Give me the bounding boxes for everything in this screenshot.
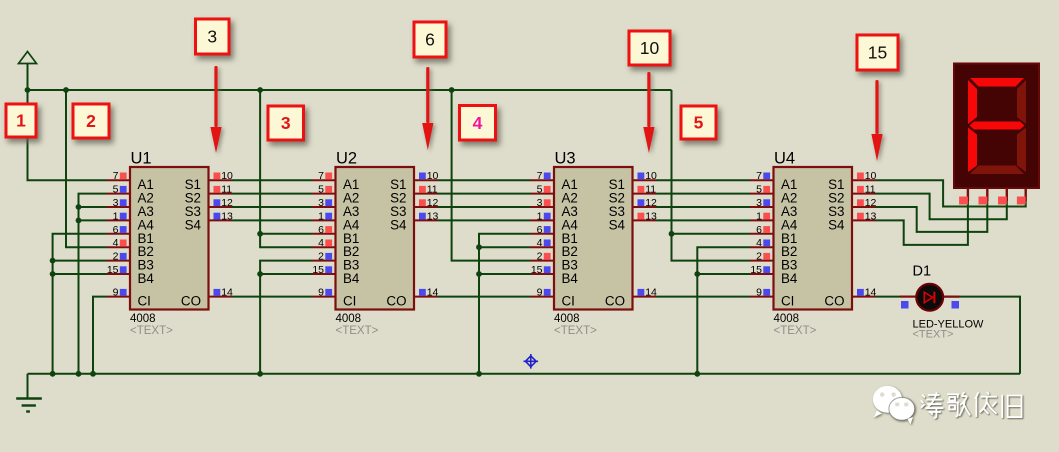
sum label 3 — [196, 19, 230, 54]
wire net 3: power to U2 B1,B2 — [260, 90, 312, 247]
U4 pin 14 (CO) — [824, 287, 876, 309]
svg-text:B4: B4 — [343, 271, 360, 286]
wire U3 B4 spur — [479, 273, 531, 275]
wire net 2: power to U1 B2 — [66, 90, 107, 247]
wire U2 S3 to U3 A3 — [438, 206, 531, 208]
LED D1 — [900, 264, 984, 341]
U4 pin 7 (A1) — [750, 170, 797, 192]
svg-text:7: 7 — [113, 170, 119, 182]
U1 pin 11 (S2) — [185, 184, 233, 206]
svg-text:2: 2 — [537, 251, 543, 263]
U2 pin 3 (A3) — [312, 197, 359, 219]
svg-text:B4: B4 — [562, 271, 579, 286]
wire U1 A2-A4 to ground — [79, 194, 107, 374]
wire U4 B1 spur — [672, 233, 751, 235]
U1 pin 4 (B2) — [107, 237, 154, 259]
svg-text:15: 15 — [531, 264, 543, 276]
junction 13 — [50, 258, 56, 264]
svg-text:10: 10 — [645, 170, 657, 182]
svg-text:3: 3 — [537, 197, 543, 209]
svg-text:4: 4 — [473, 113, 483, 133]
U2 pin 10 (S1) — [390, 170, 438, 192]
svg-text:9: 9 — [318, 287, 324, 299]
svg-text:11: 11 — [645, 184, 656, 196]
junction 17 — [476, 244, 482, 250]
U2 pin 2 (B3) — [312, 251, 359, 273]
junction 10 — [694, 371, 700, 377]
arrow to U3 sum — [643, 72, 654, 153]
U4 pin 2 (B3) — [750, 251, 797, 273]
wire U1 B4 spur — [53, 273, 107, 275]
segment F (lit) — [968, 80, 977, 124]
U2 pin 7 (A1) — [312, 170, 359, 192]
svg-text:1: 1 — [16, 111, 26, 131]
U4 pin 12 (S3) — [828, 197, 876, 219]
svg-text:CO: CO — [181, 294, 201, 309]
display pin 3 — [998, 188, 1007, 205]
U1 pin 7 (A1) — [107, 170, 154, 192]
svg-text:2: 2 — [113, 251, 119, 263]
display pin 1 — [959, 188, 968, 205]
junction 18 — [476, 271, 482, 277]
U2 pin 1 (A4) — [312, 210, 360, 232]
svg-text:1: 1 — [113, 210, 119, 222]
ground symbol bottom-left — [16, 374, 42, 412]
wire U4 CO to LED D1 anode — [876, 296, 901, 298]
svg-text:7: 7 — [756, 170, 762, 182]
U2 pin 5 (A2) — [312, 184, 359, 206]
7-segment display body — [954, 64, 1039, 189]
U3 pin 9 (CI) — [531, 287, 575, 309]
node label 2 — [73, 104, 109, 138]
svg-text:5: 5 — [756, 184, 762, 196]
IC U2 4008 body — [336, 150, 415, 338]
svg-text:1: 1 — [318, 210, 324, 222]
U3 pin 10 (S1) — [609, 170, 657, 192]
svg-text:13: 13 — [865, 210, 877, 222]
wire U1 B3 spur — [53, 260, 107, 262]
wire U1 CI to ground — [93, 297, 107, 374]
wire bottom ground bus — [28, 373, 1021, 375]
svg-text:<TEXT>: <TEXT> — [913, 329, 954, 341]
arrow to U2 sum — [422, 67, 433, 150]
U4 pin 9 (CI) — [750, 287, 794, 309]
wire U3 B2 spur — [479, 246, 531, 248]
U3 pin 12 (S3) — [609, 197, 657, 219]
wire U2 S4 to U3 A4 — [438, 219, 531, 221]
U3 pin 1 (A4) — [531, 210, 579, 232]
node label 3 (B of U2) — [268, 106, 304, 140]
junction 2 — [63, 87, 69, 93]
wire U2 B1 spur — [260, 233, 312, 235]
wire U1 S4 to U2 A4 — [232, 219, 312, 221]
svg-text:<TEXT>: <TEXT> — [336, 325, 379, 337]
svg-text:6: 6 — [756, 224, 762, 236]
svg-text:U4: U4 — [774, 150, 795, 168]
junction 8 — [257, 371, 263, 377]
wire U3 S4 to U4 A4 — [656, 219, 750, 221]
node label 1 — [6, 104, 36, 137]
wire top power bus — [27, 89, 672, 91]
svg-text:CO: CO — [386, 294, 406, 309]
wire U1 A4 spur — [79, 219, 107, 221]
svg-text:B4: B4 — [781, 271, 798, 286]
svg-text:5: 5 — [318, 184, 324, 196]
svg-text:5: 5 — [537, 184, 543, 196]
svg-text:4: 4 — [537, 237, 543, 249]
U4 pin 11 (S2) — [828, 184, 876, 206]
svg-text:D1: D1 — [913, 264, 932, 280]
IC U3 4008 body — [554, 150, 633, 338]
junction 12 — [76, 218, 82, 224]
wire U1 S3 to U2 A3 — [232, 206, 312, 208]
wire U1 A3 spur — [79, 206, 107, 208]
U3 pin 4 (B2) — [531, 237, 578, 259]
svg-text:11: 11 — [221, 184, 232, 196]
U3 pin 14 (CO) — [605, 287, 657, 309]
U1 pin 2 (B3) — [107, 251, 154, 273]
U1 pin 14 (CO) — [181, 287, 233, 309]
wire U1 S2 to U2 A2 — [232, 193, 312, 195]
U3 pin 7 (A1) — [531, 170, 578, 192]
svg-text:CI: CI — [562, 294, 575, 309]
svg-text:CO: CO — [605, 294, 625, 309]
svg-text:15: 15 — [868, 43, 887, 63]
svg-text:15: 15 — [750, 264, 762, 276]
svg-text:3: 3 — [756, 197, 762, 209]
svg-text:4: 4 — [756, 237, 762, 249]
LED probe square left — [901, 301, 909, 309]
wire U4 B4 spur — [697, 273, 750, 275]
U3 pin 11 (S2) — [609, 184, 657, 206]
node label 4 (B of U3) — [460, 106, 496, 141]
svg-text:4008: 4008 — [130, 313, 156, 325]
svg-text:10: 10 — [221, 170, 233, 182]
svg-text:10: 10 — [427, 170, 439, 182]
wire U3 B1,B2,B4 to ground — [479, 234, 531, 374]
watermark WeChat icon — [873, 386, 915, 425]
svg-text:S4: S4 — [828, 217, 845, 232]
svg-text:CI: CI — [781, 294, 794, 309]
U2 pin 15 (B4) — [312, 264, 360, 286]
junction 20 — [694, 271, 700, 277]
junction 3 — [257, 87, 263, 93]
svg-text:S4: S4 — [390, 217, 407, 232]
sum label 15 — [857, 35, 898, 70]
svg-text:11: 11 — [427, 184, 438, 196]
U4 pin 10 (S1) — [828, 170, 876, 192]
wire net 5: power to U4 B1,B3 — [672, 90, 751, 261]
junction 5 — [50, 371, 56, 377]
svg-text:9: 9 — [756, 287, 762, 299]
wire U2 B4 spur — [260, 273, 312, 275]
svg-text:CI: CI — [138, 294, 151, 309]
svg-text:9: 9 — [113, 287, 119, 299]
svg-text:1: 1 — [756, 210, 762, 222]
junction 19 — [669, 231, 675, 237]
node label 5 (B of U4) — [681, 106, 716, 139]
svg-text:9: 9 — [537, 287, 543, 299]
svg-text:15: 15 — [312, 264, 324, 276]
svg-text:1: 1 — [537, 210, 543, 222]
junction 6 — [76, 371, 82, 377]
U3 pin 3 (A3) — [531, 197, 578, 219]
svg-text:14: 14 — [865, 287, 877, 299]
svg-text:14: 14 — [427, 287, 439, 299]
svg-text:7: 7 — [537, 170, 543, 182]
svg-text:15: 15 — [107, 264, 119, 276]
segment G (lit) — [970, 122, 1025, 130]
wire U4 S1 to display pin — [876, 180, 1026, 206]
svg-text:<TEXT>: <TEXT> — [774, 325, 817, 337]
wire U4 B2,B4 to ground — [697, 247, 750, 374]
wire U4 S3 to display pin — [876, 201, 988, 232]
wire U2 S2 to U3 A2 — [438, 193, 531, 195]
junction 9 — [476, 371, 482, 377]
wire U2 B3,B4 to ground — [260, 261, 312, 374]
power symbol VCC top-left — [19, 52, 37, 91]
svg-text:10: 10 — [640, 38, 660, 58]
wire U4 S2 to display pin — [876, 194, 1007, 220]
U4 pin 5 (A2) — [750, 184, 797, 206]
U2 pin 11 (S2) — [390, 184, 438, 206]
segment E (lit) — [968, 128, 977, 173]
wire U4 S4 to display pin — [876, 201, 968, 245]
wire net 1: power to U1 A1 — [28, 90, 107, 180]
svg-text:4008: 4008 — [774, 313, 800, 325]
wire U3 CO to U4 CI — [656, 296, 750, 298]
svg-text:CI: CI — [343, 294, 356, 309]
svg-text:3: 3 — [281, 113, 291, 133]
U1 pin 10 (S1) — [185, 170, 233, 192]
svg-text:CO: CO — [824, 294, 844, 309]
svg-text:6: 6 — [537, 224, 543, 236]
U1 pin 5 (A2) — [107, 184, 154, 206]
wire U2 CO to U3 CI — [438, 296, 531, 298]
svg-text:5: 5 — [113, 184, 119, 196]
svg-text:13: 13 — [221, 210, 233, 222]
display pin 4 — [1017, 188, 1026, 205]
svg-text:10: 10 — [865, 170, 877, 182]
svg-text:4008: 4008 — [554, 313, 580, 325]
segment B (unlit) — [1017, 80, 1026, 124]
segment A (lit) — [970, 78, 1024, 87]
U2 pin 4 (B2) — [312, 237, 359, 259]
U2 pin 9 (CI) — [312, 287, 356, 309]
svg-text:6: 6 — [318, 224, 324, 236]
svg-text:14: 14 — [645, 287, 657, 299]
svg-text:12: 12 — [645, 197, 657, 209]
svg-text:14: 14 — [221, 287, 233, 299]
junction 4 — [449, 87, 455, 93]
segment D (unlit) — [970, 166, 1024, 175]
svg-text:2: 2 — [756, 251, 762, 263]
wire U2 S1 to U3 A1 — [438, 179, 531, 181]
origin marker — [524, 354, 539, 369]
U1 pin 12 (S3) — [185, 197, 233, 219]
wire U1 CO to U2 CI — [232, 296, 312, 298]
wire U1 S1 to U2 A1 — [232, 179, 312, 181]
junction 16 — [257, 271, 263, 277]
watermark text 涛歌依旧 — [921, 392, 1022, 418]
segment C (unlit) — [1017, 128, 1026, 173]
U2 pin 12 (S3) — [390, 197, 438, 219]
junction 1 — [25, 87, 31, 93]
U2 pin 14 (CO) — [386, 287, 438, 309]
junction 7 — [90, 371, 96, 377]
svg-text:<TEXT>: <TEXT> — [130, 325, 173, 337]
U1 pin 9 (CI) — [107, 287, 151, 309]
U4 pin 1 (A4) — [750, 210, 798, 232]
U3 pin 6 (B1) — [531, 224, 578, 246]
wire U1 B1,B3,B4 to ground — [53, 234, 107, 374]
svg-text:12: 12 — [221, 197, 233, 209]
arrow to U4 sum — [871, 80, 882, 161]
LED probe square right — [952, 301, 960, 309]
U1 pin 3 (A3) — [107, 197, 154, 219]
U1 pin 6 (B1) — [107, 224, 154, 246]
svg-text:13: 13 — [427, 210, 439, 222]
wire U3 S2 to U4 A2 — [656, 193, 750, 195]
U4 pin 15 (B4) — [750, 264, 798, 286]
U4 pin 13 (S4) — [828, 210, 876, 232]
svg-text:6: 6 — [113, 224, 119, 236]
display pin 2 — [979, 188, 988, 205]
svg-text:U1: U1 — [131, 150, 152, 168]
U2 pin 6 (B1) — [312, 224, 359, 246]
junction 14 — [50, 271, 56, 277]
U1 pin 15 (B4) — [107, 264, 155, 286]
svg-text:13: 13 — [645, 210, 657, 222]
svg-text:4: 4 — [113, 237, 119, 249]
arrow to U1 sum — [210, 66, 221, 153]
U3 pin 13 (S4) — [609, 210, 657, 232]
svg-text:3: 3 — [207, 27, 217, 47]
wire U3 S1 to U4 A1 — [656, 179, 750, 181]
U4 pin 6 (B1) — [750, 224, 797, 246]
svg-text:B4: B4 — [138, 271, 155, 286]
svg-text:4008: 4008 — [336, 313, 362, 325]
U1 pin 1 (A4) — [107, 210, 155, 232]
junction 11 — [76, 204, 82, 210]
svg-text:11: 11 — [865, 184, 876, 196]
IC U4 4008 body — [774, 150, 853, 338]
svg-text:2: 2 — [86, 111, 96, 131]
svg-text:7: 7 — [318, 170, 324, 182]
svg-text:U3: U3 — [555, 150, 576, 168]
U4 pin 4 (B2) — [750, 237, 797, 259]
svg-text:6: 6 — [425, 30, 435, 50]
sum label 6 — [414, 22, 446, 57]
svg-text:<TEXT>: <TEXT> — [554, 325, 597, 337]
junction 15 — [257, 231, 263, 237]
IC U1 4008 body — [130, 150, 209, 338]
U3 pin 2 (B3) — [531, 251, 578, 273]
wire net 4: power to U3 B3 — [452, 90, 531, 261]
svg-text:12: 12 — [865, 197, 877, 209]
U3 pin 15 (B4) — [531, 264, 579, 286]
svg-text:2: 2 — [318, 251, 324, 263]
wire LED D1 cathode return to ground — [944, 297, 1020, 374]
U3 pin 5 (A2) — [531, 184, 578, 206]
sum label 10 — [629, 31, 670, 65]
svg-text:3: 3 — [113, 197, 119, 209]
svg-text:4: 4 — [318, 237, 324, 249]
U2 pin 13 (S4) — [390, 210, 438, 232]
svg-text:U2: U2 — [336, 150, 357, 168]
svg-text:12: 12 — [427, 197, 439, 209]
U4 pin 3 (A3) — [750, 197, 797, 219]
svg-text:5: 5 — [694, 113, 704, 133]
wire U3 S3 to U4 A3 — [656, 206, 750, 208]
svg-text:S4: S4 — [185, 217, 202, 232]
svg-text:3: 3 — [318, 197, 324, 209]
svg-text:S4: S4 — [609, 217, 626, 232]
U1 pin 13 (S4) — [185, 210, 233, 232]
